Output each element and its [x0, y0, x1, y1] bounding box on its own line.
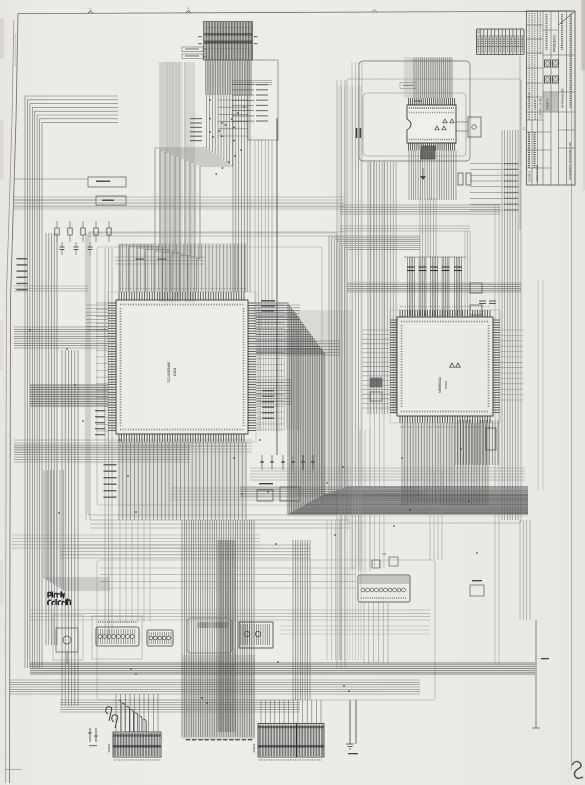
components right of IC603: [458, 173, 482, 315]
wire bus x167 from connector: [167, 62, 185, 298]
title block: [527, 11, 576, 185]
wire bus horizontal above IC603: [347, 283, 521, 292]
wire bus below IC601 continuing: [182, 520, 254, 737]
wire horizontals y488 left: [170, 488, 295, 500]
wire branch CN501 right: [218, 100, 248, 136]
section box bottom inner: [187, 618, 232, 653]
wire bus left of IC603: [362, 330, 390, 408]
wire bus above IC602: [414, 58, 452, 99]
wire horizontals y470s: [250, 468, 525, 480]
wire vertical x277 dark: [276, 118, 278, 455]
svg-text:IC601: IC601: [173, 368, 177, 377]
net label text under CN603: [259, 759, 322, 761]
wire bends into CN602: [118, 700, 146, 732]
svg-text:CN603: CN603: [252, 743, 256, 752]
section box outer right: [347, 79, 521, 523]
border tick mark left: [88, 7, 93, 14]
wire vertical right x495 long: [495, 205, 499, 665]
wire vertical x360 to reset: [360, 430, 370, 572]
signal name table: [477, 29, 525, 55]
wire horizontals y535s: [12, 535, 260, 548]
labeled nets left mid-top: [14, 177, 126, 205]
net labels right of CN501: [232, 60, 278, 140]
svg-text:CN602: CN602: [107, 743, 111, 752]
net label stubs far left: [17, 258, 28, 290]
border bottom left corner: [6, 769, 23, 771]
wire junction dots: [29, 99, 478, 704]
component under rounded box: [187, 618, 232, 653]
component RA602 bottom left: [92, 616, 142, 659]
wire central bus upper extension: [329, 236, 528, 493]
section box bottom: [97, 560, 435, 700]
net labels right column: [470, 163, 519, 211]
IC601 part number label: [167, 362, 177, 383]
wire pair y228 to x468: [340, 226, 470, 231]
svg-text:A-1.4 A-1.4 A-1.4: A-1.4 A-1.4 A-1.4: [533, 100, 537, 120]
wire vertical x370 group: [370, 160, 384, 568]
wire vertical x540 pair: [538, 280, 543, 490]
svg-text:NO: NO: [478, 30, 481, 34]
svg-text:C: C: [523, 126, 526, 131]
section box rounded B: [359, 61, 470, 161]
dark component cluster below right of IC603: [455, 420, 498, 465]
svg-text:PROCESS: PROCESS: [553, 35, 557, 52]
border frame top line: [18, 11, 572, 13]
scan bleed shading: [30, 22, 528, 739]
left margin smudges: [0, 18, 4, 606]
wires into CN602: [116, 694, 158, 732]
resistor pack RA601: [421, 146, 435, 159]
wire vertical x430 bottom: [430, 470, 442, 560]
wire vertical x327 bottom: [327, 520, 340, 660]
net label specks x105 y464: [104, 464, 117, 498]
wire band bottom vertical b: [293, 540, 310, 700]
net label text under CN602: [114, 759, 160, 761]
wire vertical x255 group: [255, 140, 272, 330]
wire bus IC602 to resistor arrays: [420, 198, 436, 257]
wire long horizontal y203: [14, 203, 345, 207]
wire bus right section horizontal y205: [340, 205, 500, 214]
svg-text:IC603: IC603: [444, 381, 448, 389]
svg-text:1-24786 1-24786: 1-24786 1-24786: [539, 98, 543, 118]
wire stubs into IC601 left pins: [96, 303, 108, 431]
crystal circuit X602: [239, 622, 273, 648]
IC603 pin number rows: [400, 307, 490, 428]
wire bus below IC601: [119, 442, 246, 520]
wire bus from CN501 down: [206, 60, 252, 95]
wire horizontals y440s: [14, 440, 252, 452]
wire vertical x86: [86, 233, 90, 520]
wire bus IC601 left pins out: [86, 305, 108, 330]
RC cluster top left: [55, 221, 111, 255]
svg-text:47k: 47k: [382, 552, 387, 556]
border frame right line: [571, 11, 573, 770]
connector CN603 bottom mid: [252, 724, 324, 758]
wire vertical x352 group: [352, 62, 362, 570]
IC603 part number label: [438, 377, 448, 393]
handwritten mark bottom right corner: [572, 761, 583, 778]
component marks left of CN602: [88, 728, 98, 746]
pencil note left margin: [15, 34, 17, 66]
wire vertical x465 pair: [465, 231, 470, 312]
svg-text:TC140G54AF: TC140G54AF: [167, 362, 171, 383]
wire bus left edge vertical with elbows: [25, 96, 118, 668]
wire bus below IC603: [402, 423, 488, 505]
wire bus IC601 right to center: [256, 380, 292, 404]
wire bus below IC602 left group: [409, 151, 434, 201]
wires into CN603: [261, 700, 321, 724]
wire bus bottom horizontal c: [60, 700, 300, 712]
handwritten note: [48, 591, 71, 604]
wire bus mid horizontal long: [90, 520, 350, 528]
paper edge shadow right: [582, 0, 585, 190]
wire bus left third vertical: [62, 350, 78, 706]
net label boxes left of CN501: [182, 47, 206, 59]
IC601 main gate array QFP: [108, 292, 256, 442]
section box rounded C: [363, 93, 466, 156]
net label row under middle bus: [186, 739, 253, 740]
wire long horizontal y232: [88, 232, 345, 236]
wire dense band left of IC603: [368, 162, 396, 414]
wire vertical x105: [105, 248, 112, 640]
resistor arrays above IC603: [404, 257, 466, 316]
wires below reset IC: [364, 602, 388, 663]
IC601 pin number rows: [105, 289, 260, 447]
svg-text:CRDJ-T2-S111: CRDJ-T2-S111: [535, 164, 539, 182]
border tick mark mid: [186, 6, 191, 13]
wire horizontal y286: [14, 286, 88, 291]
components left of IC603: [370, 378, 382, 401]
connector CN501 top: [198, 22, 257, 61]
wire gray band right of IC601: [258, 330, 300, 430]
wire bus horizontal left c: [14, 445, 190, 462]
wire bus below IC602 right group: [437, 151, 456, 201]
wire bus above IC601 inner: [119, 244, 245, 292]
wire bus horizontal into IC601 left b: [30, 385, 108, 406]
components below IC601: [257, 455, 315, 501]
net labels around IC601: [95, 390, 274, 435]
wire bus left second vertical: [46, 233, 57, 645]
wire bus lower mid horizontal: [60, 545, 310, 558]
wire horizontal bus center left: [240, 487, 420, 496]
border frame left double line: [6, 14, 19, 783]
border tick mark right: [372, 10, 377, 13]
wire bus bottom horizontal dense: [30, 663, 535, 674]
svg-text:APPROVED BY: APPROVED BY: [561, 88, 565, 108]
wire vertical x120-150 bottom: [120, 520, 150, 622]
warning triangles in IC603: [450, 363, 461, 367]
ground cluster bottom: [346, 700, 358, 754]
op-amp IC602 top right: [407, 98, 456, 151]
reset IC604: [358, 552, 410, 602]
wire bus bottom horizontal b: [10, 680, 420, 694]
wire verticals right mid: [520, 520, 530, 620]
wire bus CN501 S-bend to IC601 top pins: [120, 95, 233, 292]
wire horizontal group y197: [14, 197, 345, 209]
wire band bottom vertical a: [218, 540, 235, 732]
wire bus IC601 right pins out b: [256, 341, 340, 355]
wire horizontals y613: [30, 610, 430, 620]
component small right of reset: [470, 580, 484, 596]
wire bus horizontal into IC601 left a: [14, 327, 108, 348]
svg-text:M6M80411: M6M80411: [438, 377, 442, 393]
resistor pair R612 R613: [357, 128, 361, 138]
transistor circuit Q601: [456, 117, 481, 137]
wire single right bottom: [532, 620, 549, 728]
wire pair into IC602 left: [232, 81, 272, 85]
capacitors right of resistor arrays: [479, 301, 496, 304]
section box inner left: [97, 247, 322, 505]
connector CN602 bottom left: [107, 732, 161, 757]
wire verticals right section long: [502, 130, 518, 520]
wire bus right of IC603: [500, 330, 523, 400]
wire horizontals y570s: [100, 568, 356, 588]
wire vertical x337 group: [337, 80, 345, 668]
net labels left of bus: [190, 118, 235, 142]
svg-text:IC602: IC602: [414, 99, 422, 103]
wire vertical C label x520: [520, 56, 526, 230]
wire bus IC601 right pins out a: [256, 305, 300, 322]
net label box on section edge: [400, 83, 416, 89]
svg-text:SCHEMATIC DIAGRAM T-100: SCHEMATIC DIAGRAM T-100: [568, 142, 572, 180]
net label cluster x268 y300: [261, 300, 275, 312]
wire horizontals y628: [280, 626, 430, 634]
transistor circuit bottom far left: [53, 615, 83, 664]
svg-text:C2645-1: C2645-1: [528, 170, 532, 182]
wire stubs out IC601 right pins: [256, 305, 284, 430]
component RA603 bottom left b: [147, 630, 173, 646]
wire central staircase bus IC601 to right: [256, 303, 528, 514]
wire bus CN501 straight down: [233, 95, 250, 292]
wire gray column x340-362: [339, 86, 361, 660]
wire staircase left bottom: [44, 470, 110, 590]
section box around IC601 area: [88, 233, 337, 515]
ground symbol below IC602: [420, 168, 426, 180]
wire group y257 with labels: [115, 257, 205, 264]
IC603 main QFP right: [390, 310, 500, 423]
handwritten curl small: [106, 707, 118, 728]
